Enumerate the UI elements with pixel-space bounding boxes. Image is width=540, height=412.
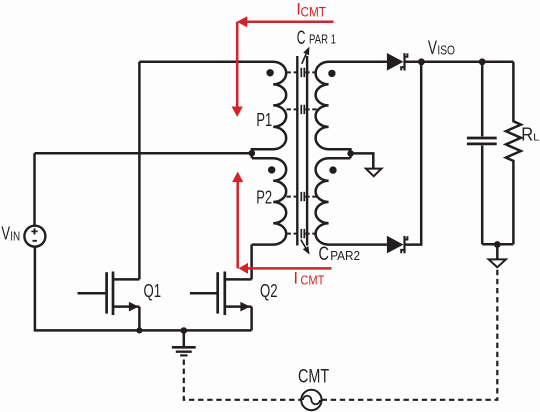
svg-text:P2: P2 bbox=[256, 187, 272, 208]
svg-text:P1: P1 bbox=[256, 109, 272, 130]
wire secondary tap to ground bbox=[351, 153, 374, 168]
svg-text:CMT: CMT bbox=[300, 273, 324, 287]
transformer primary winding P1 bbox=[139, 62, 286, 158]
red ICMT path bottom bbox=[238, 182, 332, 268]
svg-text:R: R bbox=[521, 124, 533, 145]
svg-text:PAR 1: PAR 1 bbox=[309, 32, 336, 46]
node bottom right bbox=[494, 241, 501, 248]
voltage source VIN bbox=[24, 226, 45, 247]
polarity dot S2 bbox=[329, 166, 336, 173]
ground arrow right bbox=[496, 245, 499, 260]
svg-text:L: L bbox=[533, 133, 540, 144]
wire VIN+ to primary center tap bbox=[35, 152, 252, 155]
diode D1 (top schottky) bbox=[387, 53, 408, 71]
source CMT bbox=[301, 390, 321, 410]
polarity dot P1 bbox=[266, 69, 273, 76]
svg-text:Q1: Q1 bbox=[144, 280, 162, 301]
wire Q1 drain up to P1 top bbox=[138, 62, 141, 280]
svg-text:CMT: CMT bbox=[298, 367, 329, 388]
ground primary bbox=[181, 327, 188, 334]
transformer secondary winding S1 bbox=[316, 62, 387, 158]
capacitor COUT bbox=[467, 62, 497, 244]
polarity dot S1 bbox=[328, 70, 335, 77]
node secondary center tap bbox=[347, 150, 354, 157]
red arrowhead up bbox=[232, 172, 243, 183]
wire D2 cathode up to VISO bbox=[405, 62, 422, 245]
svg-text:Q2: Q2 bbox=[260, 280, 278, 301]
wire P2 bottom to Q2 drain bbox=[250, 245, 253, 280]
svg-text:C: C bbox=[319, 244, 329, 265]
wire VISO rail bbox=[405, 61, 514, 64]
transformer core bbox=[297, 56, 307, 246]
node VISO cap tap bbox=[479, 58, 486, 65]
dashed CMT return path left bbox=[184, 360, 301, 400]
transistor Q1 bbox=[78, 272, 140, 331]
red ICMT path top bbox=[237, 22, 333, 108]
svg-text:ISO: ISO bbox=[437, 43, 455, 58]
svg-text:V: V bbox=[1, 223, 10, 244]
svg-text:V: V bbox=[428, 38, 437, 59]
svg-text:C: C bbox=[297, 28, 306, 49]
diode D2 (bottom schottky) bbox=[387, 236, 408, 254]
capacitor CPAR bottom pair bbox=[287, 197, 319, 234]
svg-text:I: I bbox=[293, 269, 298, 288]
transistor Q2 bbox=[190, 272, 252, 331]
transformer secondary winding S2 bbox=[316, 158, 387, 244]
polarity dot P2 bbox=[268, 166, 275, 173]
svg-text:CMT: CMT bbox=[301, 3, 327, 19]
node VISO bbox=[418, 58, 425, 65]
resistor RL bbox=[506, 62, 521, 244]
ground arrow secondary bbox=[366, 169, 382, 177]
label CPAR1 with leader arrow bbox=[302, 54, 306, 64]
svg-text:IN: IN bbox=[10, 228, 20, 243]
red arrowhead down bbox=[232, 107, 243, 118]
wire bottom right bbox=[482, 243, 513, 246]
node Q1 source rail junction bbox=[136, 327, 142, 333]
label CPAR2 with leader arrow bbox=[301, 240, 306, 248]
red arrowhead left bottom bbox=[239, 263, 249, 274]
wire VIN top lead bbox=[33, 153, 36, 226]
dashed CMT return path right bbox=[322, 268, 498, 400]
svg-text:PAR2: PAR2 bbox=[330, 249, 360, 263]
node primary center tap bbox=[249, 150, 256, 157]
capacitor CPAR top pair bbox=[287, 72, 319, 109]
transformer primary winding P2 bbox=[252, 158, 287, 244]
wire VIN bottom lead and ground rail bbox=[35, 247, 252, 331]
red arrowhead left top bbox=[237, 16, 248, 27]
